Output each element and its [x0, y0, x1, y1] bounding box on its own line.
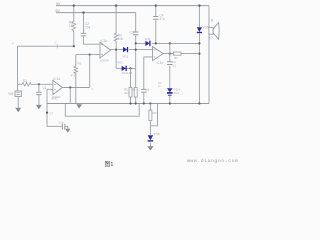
ground symbol on rail at x=79 [76, 104, 82, 108]
wire C1 branch down [38, 84, 40, 105]
capacitor C2 plates [81, 33, 86, 36]
diode VD3 blue pointing right on y=43.4 [145, 41, 149, 46]
svg-text:C1: C1 [43, 86, 47, 90]
wire upper supply rail [56, 5, 209, 7]
svg-text:VD6: VD6 [154, 132, 160, 136]
svg-text:IC1a: IC1a [54, 77, 61, 81]
svg-text:4k7: 4k7 [124, 91, 129, 95]
potentiometer RP1 box [149, 110, 152, 121]
microphone BM box [15, 91, 21, 96]
wire op1 output y=87.5 [62, 87, 89, 89]
wire vertical bias branch from upper rail x=73.8 [73, 6, 75, 47]
junction dot lower rail x=83.5 [82, 11, 84, 13]
wire x=130.5 down through R5 to ground rail [130, 68, 132, 103]
svg-text:47u: 47u [160, 17, 166, 21]
resistor R2 zigzag on bias branch [72, 22, 76, 32]
junction dot x=199.4 y=53.6 [198, 53, 200, 55]
node tick on input wire [56, 44, 58, 48]
wire IC1c output y=53.6 [163, 53, 199, 55]
capacitor C4 plates [153, 17, 158, 20]
svg-text:R1: R1 [23, 79, 27, 83]
junction dot upper rail x=116.1 [115, 4, 117, 6]
junction dot x=47 y=112.6 [46, 112, 48, 114]
svg-text:6V2: 6V2 [174, 91, 180, 95]
junction dot x=135.7 y=49.6 [135, 49, 137, 51]
wire op1 input horizontal y=84.3 with R1 [18, 83, 53, 85]
wire speaker drive line y=43.4 [136, 42, 200, 44]
op-amp IC1c [153, 47, 164, 61]
svg-text:1M: 1M [69, 24, 74, 28]
wire input node corner and horizontal y=46.2 [18, 45, 74, 47]
svg-text:GND: GND [51, 97, 59, 101]
svg-text:www.diangon.com: www.diangon.com [187, 158, 238, 164]
wire IC1b + input horizontal y=54.6 [76, 54, 100, 56]
junction dot ground rail x=143.8 [143, 102, 145, 104]
svg-text:104: 104 [85, 26, 91, 30]
capacitor C6 plates on x=169.8 [167, 62, 172, 65]
junction dot x=38.9 y=84.3 [38, 83, 40, 85]
wire lower loop line B [65, 104, 139, 117]
wire input vertical x=17.5 down to mic [17, 46, 19, 91]
resistor R7 box on output wire [173, 52, 181, 55]
wire op1 inverting input from x=47 [47, 88, 53, 90]
speaker B [209, 27, 213, 34]
wire ground rail y=103.5 [47, 103, 209, 105]
svg-text:10k: 10k [118, 37, 124, 41]
junction dot ground rail x=150.4 [149, 102, 151, 104]
svg-text:R3: R3 [78, 62, 82, 66]
junction dot on upper rail at x=73.8 [73, 4, 75, 6]
wire riser x=89.7 from op1 output [89, 55, 91, 88]
capacitor C7 plates vertical on y=126.3 run [62, 124, 64, 130]
wire vertical x=169.8 from y=43.4 to ground rail [169, 43, 171, 103]
wire vertical x=47 down to RC ground chain [47, 89, 62, 126]
junction dot x=70.3 y=87.5 [69, 86, 71, 88]
wire lower supply rail [56, 12, 136, 14]
resistor R3 zigzag on x=75.8 [74, 66, 78, 74]
wire vertical branch from lower rail x=83.5 with C2 [84, 13, 101, 45]
svg-text:C5: C5 [146, 88, 150, 92]
svg-text:C3: C3 [130, 31, 134, 35]
junction dot x=199.4 y=43.4 [198, 42, 200, 44]
wire C7 to ground [65, 126, 68, 129]
capacitor C5 plates [141, 89, 146, 92]
wire feedback vertical x=75.8 from +in wire of IC1b down to ground rail [75, 55, 77, 104]
svg-text:BM: BM [9, 92, 14, 96]
svg-text:0.1: 0.1 [172, 64, 177, 68]
junction dot at x=73.8 y=46.2 [73, 45, 75, 47]
svg-text:VD3: VD3 [145, 37, 151, 41]
diode VD1 blue pointing right [123, 47, 127, 52]
junction dot x=135.7 y=43.4 [135, 42, 137, 44]
junction dot x=89.7 y=54.6 [89, 54, 91, 56]
junction dot ground rail x=169.8 [169, 102, 171, 104]
junction dot x=116.1 y=49.6 [115, 49, 117, 51]
junction dot ground rail x=199.4 [198, 102, 200, 104]
svg-text:C7: C7 [50, 112, 54, 116]
op-amp IC1a [53, 80, 62, 94]
svg-text:图1: 图1 [105, 160, 114, 168]
junction dot ground rail x=130.5 [129, 102, 131, 104]
wire mic to ground [17, 96, 19, 107]
junction dot upper rail x=199.4 [198, 4, 200, 6]
capacitor C3 plates on x=135.7 [133, 32, 138, 35]
op-amp IC1b [100, 42, 111, 58]
svg-text:+: + [12, 42, 14, 46]
wire speaker vertical x=208.7 from upper rail corner down to ground rail [208, 6, 210, 104]
junction dot upper rail x=155.8 [155, 4, 157, 6]
ground small right of C7 [65, 129, 70, 133]
junction dot x=169.8 y=53.6 [169, 53, 171, 55]
diode VD4 blue on x=169.8 [167, 88, 173, 92]
wire IC1c + input y=56.9 and vertical x=143.8 with C5 [144, 57, 153, 104]
wire pull-up vertical x=116.1 from upper rail to diode branch corner [115, 6, 117, 69]
wire wiper link x=157.5 [150, 104, 157, 126]
svg-text:C: C [55, 41, 57, 45]
diode VD6 blue pointing down [148, 135, 154, 140]
svg-text:47k: 47k [71, 74, 76, 78]
diode VD2 blue pointing right on y=68.4 [122, 66, 126, 71]
ground below mic [15, 108, 21, 113]
wire vertical x=70.3 to ground rail [69, 88, 71, 104]
junction dot ground rail x=135.7 [135, 102, 137, 104]
resistor R5 box [129, 88, 132, 98]
ground below VD6 [147, 146, 153, 150]
svg-text:10u: 10u [59, 121, 64, 125]
svg-text:VD2: VD2 [117, 61, 123, 65]
svg-text:IC1b: IC1b [101, 39, 108, 43]
junction dot x=169.8 y=43.4 [169, 42, 171, 44]
junction dot x=155.8 y=43.4 [155, 42, 157, 44]
ground below C1 [36, 105, 42, 110]
svg-text:LM324: LM324 [100, 58, 109, 62]
svg-text:VD1: VD1 [123, 55, 129, 59]
svg-text:IC1c: IC1c [157, 61, 164, 65]
resistor R6 box on x=135.7 lower [134, 88, 137, 98]
wire vertical x=199.4 from upper rail to ground rail with VD5 [198, 6, 200, 104]
wire vertical x=135.7 from lower rail end down to ground line [135, 13, 137, 104]
junction dot x=130.5 y=68.4 [129, 67, 131, 69]
capacitor C1 plates [36, 92, 42, 94]
wire IC1b output y=49.6 to IC1c inverting input [111, 49, 153, 51]
svg-text:VD5: VD5 [203, 26, 209, 30]
wire vertical x=155.8 from upper rail with C4 [155, 6, 157, 44]
wire diode branch y=68.4 from x=116.1 corner [116, 67, 136, 69]
resistor R4 zigzag pull-up [114, 33, 118, 41]
diode VD5 blue pointing down [197, 27, 202, 32]
potentiometer RP1 chain below ground rail [149, 104, 151, 147]
resistor R1 zigzag horizontal [22, 82, 31, 86]
